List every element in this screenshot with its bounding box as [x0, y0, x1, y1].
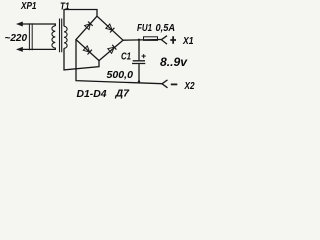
wire plug bottom line — [22, 48, 56, 50]
polarity plus C1 — [142, 54, 146, 58]
wire plug top line — [22, 24, 56, 26]
svg-text:8..9v: 8..9v — [160, 55, 188, 69]
svg-text:~220: ~220 — [5, 32, 28, 44]
svg-text:T1: T1 — [60, 1, 70, 13]
wire secondary bottom to bridge AC2 — [64, 48, 99, 70]
wire bridge minus down and bottom rail to X2 — [76, 40, 162, 84]
terminal X1 fork — [161, 36, 167, 44]
capacitor C1 bottom lead — [138, 64, 140, 82]
wire secondary top to bridge AC1 — [64, 10, 97, 27]
capacitor C1 top lead — [138, 40, 140, 60]
svg-text:C1: C1 — [121, 50, 131, 62]
plug XP1 body bars — [29, 23, 32, 50]
plug XP1 pin bottom arrow — [16, 47, 23, 52]
wire bridge plus to fuse and X1 — [123, 39, 162, 42]
svg-text:D1-D4: D1-D4 — [77, 88, 107, 100]
svg-text:X1: X1 — [182, 35, 193, 47]
diode D2 upper-right — [106, 24, 115, 33]
svg-text:X2: X2 — [184, 80, 195, 92]
svg-text:XP1: XP1 — [20, 0, 36, 12]
capacitor C1 plates — [132, 61, 145, 64]
svg-text:0,5A: 0,5A — [156, 23, 176, 34]
svg-text:Д7: Д7 — [114, 87, 130, 99]
terminal X2 fork — [162, 80, 168, 88]
fuse FU1 — [144, 37, 158, 41]
diode D4 lower-right — [108, 45, 117, 54]
transformer T1 primary winding — [52, 26, 55, 48]
transformer T1 secondary winding — [64, 26, 67, 48]
bridge diamond wires — [76, 16, 123, 60]
svg-text:500,0: 500,0 — [107, 69, 134, 81]
svg-text:FU1: FU1 — [137, 23, 152, 34]
plug XP1 pin top arrow — [16, 22, 23, 27]
transformer T1 core — [60, 19, 62, 53]
diode D1 upper-left — [85, 22, 93, 30]
diode D3 lower-left — [83, 46, 92, 55]
junction C1 top — [138, 39, 140, 41]
polarity minus X2 — [171, 83, 178, 85]
polarity plus X1 — [170, 36, 176, 43]
junction C1 bottom — [138, 80, 140, 82]
